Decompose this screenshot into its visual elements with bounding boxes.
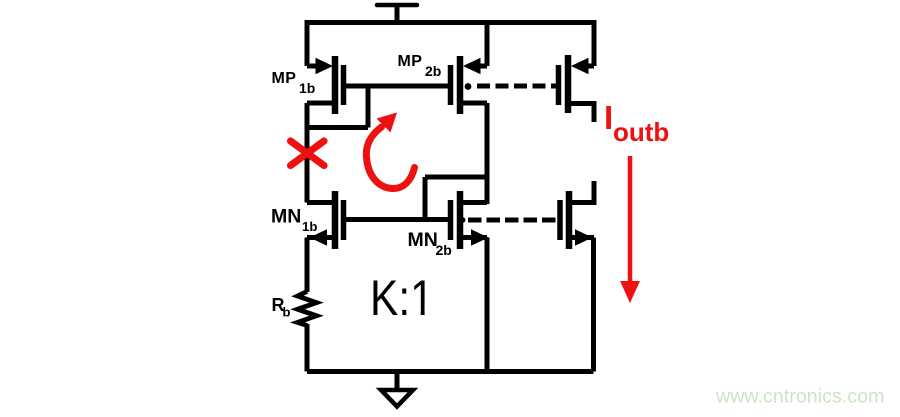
svg-text:2b: 2b (425, 63, 441, 79)
svg-text:outb: outb (613, 117, 669, 147)
MN1b channel bar (332, 191, 339, 249)
wire top VDD rail (307, 20, 594, 25)
label MP2b (398, 53, 442, 79)
wire MN2b gate-drain tie vertical (423, 177, 428, 220)
power VDD symbol (377, 5, 417, 20)
MP3 drain lead and stub (568, 104, 594, 123)
resistor Rb zigzag (298, 292, 317, 326)
label Rb (272, 295, 291, 320)
svg-text:1b: 1b (299, 80, 315, 96)
svg-text:MN: MN (271, 206, 301, 228)
wire NMOS gate net MN1b-MN2b (344, 217, 451, 222)
annotation red loop arrow (366, 113, 414, 189)
MP1b source lead with arrow (307, 64, 323, 69)
MN2b gate bar (448, 200, 454, 240)
transistor MN3 (right NMOS) (560, 181, 594, 249)
label K:1 ratio (370, 270, 437, 326)
svg-text:I: I (604, 99, 613, 136)
svg-text:www.cntronics.com: www.cntronics.com (715, 386, 884, 408)
transistor MP1b (307, 56, 344, 114)
svg-text:MN: MN (408, 229, 438, 251)
wire MN1b source down to resistor (305, 238, 310, 293)
MN2b source lead with arrow (460, 235, 487, 240)
svg-text:MP: MP (398, 53, 423, 70)
wire MN2b gate-drain tie horizontal (425, 175, 487, 180)
MN3 source lead with arrow (569, 235, 594, 240)
label MN2b (408, 229, 452, 258)
MN2b channel bar (457, 191, 464, 249)
wire dashed NMOS mirror gate link (468, 218, 558, 223)
MN1b gate bar (341, 200, 347, 240)
MN3 drain lead and stub (569, 181, 594, 203)
transistor MN2b (451, 191, 489, 249)
MN1b drain lead (307, 200, 335, 205)
svg-text:2b: 2b (436, 242, 452, 258)
wire right column source vertical (592, 20, 597, 66)
wire MN2b source vertical (485, 238, 490, 372)
MP3 gate bar (556, 65, 562, 105)
wire MP1b gate tie vertical (366, 86, 371, 128)
label Ioutb (604, 99, 669, 147)
MP2b source lead with arrow (472, 64, 487, 69)
transistor MP3 (right PMOS) (559, 55, 595, 122)
wire left rail vertical (VDD rail to MP1b source) (305, 20, 310, 66)
wire MP2b source vertical (485, 20, 490, 66)
MN1b source lead with arrow (307, 235, 335, 240)
wire dashed PMOS mirror gate link (477, 84, 557, 89)
svg-text:MP: MP (272, 70, 297, 87)
wire MP1b gate tie horizontal (305, 125, 369, 130)
svg-text:1b: 1b (302, 219, 317, 234)
wire MN3 source vertical (591, 238, 596, 372)
svg-text:K:1: K:1 (370, 270, 434, 326)
node PMOS gate dashed-link dot (465, 83, 472, 90)
MP1b channel bar (332, 56, 339, 114)
wire MP1b drain down to MN1b drain (node with X) (305, 103, 310, 203)
MP2b channel bar (457, 56, 464, 114)
MP3 source lead with arrow (580, 64, 594, 69)
wire PMOS gate net MP1b-MP2b (344, 84, 451, 89)
annotation Ioutb current arrow (620, 156, 640, 303)
MP1b drain lead (307, 101, 335, 106)
ground symbol (381, 372, 413, 407)
transistor MN1b (307, 191, 344, 249)
transistor MP2b (451, 56, 488, 114)
MN3 channel bar (566, 191, 573, 249)
MP2b gate bar (448, 65, 454, 105)
label MP1b (272, 70, 316, 96)
label MN1b (271, 206, 317, 235)
wire resistor bottom to ground rail (305, 324, 310, 372)
svg-text:b: b (283, 305, 291, 320)
wire MP2b drain to MN2b drain vertical (485, 103, 490, 204)
MP2b drain lead (460, 101, 487, 106)
MP1b gate bar (341, 65, 347, 105)
node NMOS gate dashed-link dot (460, 217, 466, 223)
MN3 gate bar (557, 200, 563, 240)
annotation red X (open loop break) (291, 141, 325, 166)
MN2b drain lead (460, 200, 487, 205)
MP3 channel bar (565, 55, 572, 113)
wire bottom ground rail (307, 369, 594, 374)
